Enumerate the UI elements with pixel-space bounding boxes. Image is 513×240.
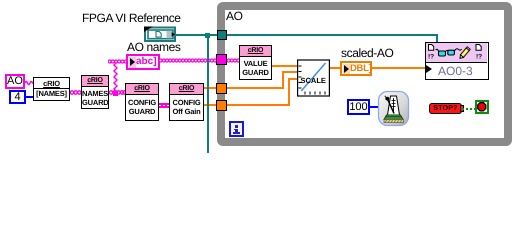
wire tunnel2 to SCALE (staircase) — [227, 104, 290, 106]
wire teal vertical down — [207, 35, 209, 153]
wire into abc icon — [108, 59, 126, 64]
wire numeric 4 to NAMES — [26, 96, 34, 98]
label scaled-AO — [341, 47, 393, 60]
node SCALE — [297, 59, 330, 97]
loop conditional terminal — [475, 100, 489, 114]
wait ms metronome icon — [377, 90, 410, 127]
wire SCALE to DBL — [330, 67, 340, 69]
junction dot pink — [113, 91, 118, 96]
node cRIO CONFIG Off Gain — [169, 83, 204, 121]
loop label AO — [226, 10, 243, 23]
iteration terminal i — [229, 121, 244, 137]
wire STOP? to conditional (green dotted) — [462, 108, 475, 110]
wire FPGA ref to loop (teal) — [176, 34, 218, 36]
wire NAMES to NAMES GUARD — [70, 90, 81, 95]
tunnel config2 (orange) — [216, 100, 227, 111]
node cRIO CONFIG GUARD — [125, 83, 159, 121]
node AO0-3 (FPGA IO node) — [425, 42, 489, 80]
wire teal drop into AO0-3 — [436, 34, 438, 43]
node cRIO NAMES GUARD — [81, 75, 109, 109]
while loop AO border — [217, 2, 512, 146]
wire string AO to NAMES (squiggle) — [25, 79, 34, 87]
tunnel config1 (orange) — [216, 83, 227, 94]
wire pink tunnel to VALUE GUARD — [227, 58, 239, 63]
string constant AO — [5, 74, 25, 89]
indicator scaled-AO (DBL icon) — [340, 61, 372, 76]
wire VALUE GUARD to SCALE — [272, 65, 298, 67]
wire 100 to wait — [370, 106, 378, 108]
label FPGA VI Reference — [82, 12, 181, 25]
wire tunnel1 to SCALE (staircase) — [227, 87, 284, 89]
label AO names — [127, 41, 181, 54]
svg-text:!?: !? — [476, 54, 482, 61]
STOP? connector nub — [460, 105, 464, 112]
node cRIO VALUE GUARD — [239, 45, 272, 80]
wire teal inside loop — [227, 34, 438, 36]
numeric constant 4 — [9, 90, 26, 104]
FPGA VI reference icon — [143, 25, 177, 43]
tunnel FPGA ref (teal) — [217, 30, 227, 40]
wire Off Gain out2 to tunnel — [204, 104, 219, 106]
svg-text:!?: !? — [428, 54, 434, 61]
wire Off Gain out1 to tunnel — [204, 87, 219, 89]
wire abc icon to loop tunnel — [159, 58, 219, 63]
wire DBL to AO0-3 — [372, 67, 426, 69]
tunnel names (pink) — [216, 54, 227, 65]
wire branch up to AO names (zigzag vertical) — [113, 60, 118, 93]
wire CONFIG GUARD to CONFIG Off Gain — [159, 103, 169, 108]
wire NAMES GUARD to CONFIG GUARD — [109, 90, 126, 95]
string indicator AO names (abc icon) — [126, 54, 160, 70]
boolean control STOP? — [429, 103, 462, 114]
junction dot teal — [205, 33, 210, 38]
svg-text:SCALE: SCALE — [301, 76, 326, 85]
node cRIO [NAMES] — [33, 77, 70, 101]
numeric constant 100 — [347, 99, 370, 115]
